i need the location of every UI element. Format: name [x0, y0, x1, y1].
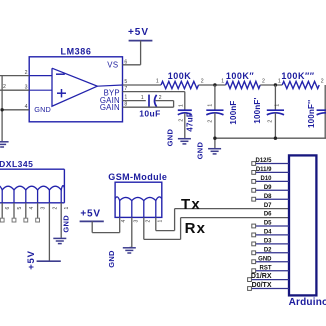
Arduino pin D5	[252, 221, 289, 228]
op-amp U1 pin name GAIN a	[100, 96, 120, 105]
wire Tx GSM pin1 to Arduino D7	[156, 209, 289, 231]
capacitor C4 label 100nF'	[253, 97, 262, 123]
capacitor C2 pin number 1	[178, 104, 184, 107]
power +5V bar GSM	[80, 220, 104, 222]
svg-text:1: 1	[278, 78, 281, 84]
svg-text:Arduino: Arduino	[289, 297, 326, 308]
svg-text:D5: D5	[264, 221, 272, 227]
capacitor C4 pin number 2	[268, 120, 274, 123]
svg-text:3: 3	[25, 84, 28, 90]
accelerometer ADXL345 label	[0, 159, 33, 169]
power +5V bar top	[129, 40, 153, 42]
power +5V label GSM	[80, 208, 100, 219]
svg-text:47uF: 47uF	[186, 112, 195, 132]
svg-text:GND: GND	[34, 105, 51, 114]
svg-text:100nF: 100nF	[229, 100, 238, 124]
svg-text:D9: D9	[264, 185, 272, 191]
capacitor C2 label 47uF	[186, 112, 195, 132]
wire +5V to GSM pin4	[92, 217, 120, 232]
svg-text:3: 3	[133, 220, 139, 223]
resistor R2 pin number 2	[262, 78, 265, 84]
svg-text:2: 2	[208, 120, 214, 123]
wire junction A down to C3	[214, 85, 216, 110]
wire Rx GSM pin2 to Arduino D6	[144, 217, 289, 239]
power +5V label ADXL	[26, 250, 37, 270]
wire ADXL pin1 to ground	[60, 203, 62, 238]
wire ground vertical left	[1, 76, 3, 142]
svg-text:2: 2	[178, 119, 184, 122]
svg-text:4: 4	[25, 104, 28, 110]
resistor R1 100K	[161, 81, 199, 88]
node junction pin4/ground	[0, 108, 3, 111]
svg-text:4: 4	[29, 207, 35, 210]
wire GSM pin3 to ground	[130, 217, 132, 247]
capacitor C3 label 100nF	[229, 100, 238, 124]
svg-text:2: 2	[321, 78, 324, 84]
ground label GND for C3	[196, 142, 205, 160]
svg-text:1: 1	[124, 94, 127, 100]
svg-text:2: 2	[201, 78, 204, 84]
svg-text:2: 2	[3, 84, 6, 90]
svg-text:RST: RST	[260, 265, 272, 271]
capacitor C3 pin number 1	[208, 104, 214, 107]
op-amp U1 pin number 4	[25, 104, 28, 110]
svg-text:1: 1	[64, 207, 70, 210]
svg-text:1: 1	[208, 104, 214, 107]
microcontroller Arduino box	[289, 155, 316, 295]
svg-text:100K: 100K	[168, 71, 192, 81]
capacitor C1 10uF	[149, 95, 157, 107]
Arduino pin D11/9	[252, 167, 289, 174]
resistor R3 pin number 1	[278, 78, 281, 84]
svg-text:LM386: LM386	[60, 47, 91, 57]
node junction B	[274, 83, 277, 86]
resistor R2 100K''	[226, 81, 261, 88]
Arduino pin D10	[252, 176, 289, 183]
svg-text:2: 2	[262, 78, 265, 84]
accelerometer ADXL345 connector box	[0, 169, 64, 203]
svg-text:D0/TX: D0/TX	[252, 282, 272, 289]
svg-text:GSM-Module: GSM-Module	[108, 172, 167, 182]
GSM pin numbers	[121, 220, 163, 223]
svg-text:GND: GND	[196, 142, 205, 160]
wire C1 to GAIN8 loop	[123, 101, 174, 108]
op-amp U1 pin number 1	[124, 94, 127, 100]
ground label GND for C2	[166, 129, 175, 147]
svg-text:GAIN: GAIN	[100, 103, 120, 112]
Arduino pin D1/RX	[248, 273, 289, 281]
terminal square ADXL p6	[0, 218, 4, 222]
svg-text:100K″: 100K″	[226, 71, 255, 81]
svg-text:1: 1	[157, 220, 163, 223]
svg-text:GND: GND	[62, 215, 71, 233]
net label Tx	[181, 196, 201, 213]
ground GND for C3 bus	[208, 149, 221, 154]
svg-text:ADXL345: ADXL345	[0, 159, 33, 169]
op-amp U1 pin name GND	[34, 105, 51, 114]
svg-text:10uF: 10uF	[139, 109, 160, 119]
wire C2 to ground	[184, 113, 186, 138]
svg-text:2: 2	[25, 70, 28, 76]
Arduino pin D8	[252, 194, 289, 201]
capacitor C1 pin number 1	[141, 95, 144, 101]
svg-text:100K″″: 100K″″	[281, 71, 314, 81]
ground label GND GSM	[107, 250, 116, 268]
capacitor C4 pin number 1	[274, 104, 280, 107]
svg-text:D12/5: D12/5	[255, 158, 272, 164]
op-amp U1 pin number 3	[25, 84, 28, 90]
node junction A	[213, 83, 216, 86]
svg-text:D1/RX: D1/RX	[251, 273, 272, 280]
svg-text:D4: D4	[264, 230, 272, 236]
wire ADXL pin3->terminal	[37, 203, 39, 218]
resistor R1 label 100K	[168, 71, 192, 81]
capacitor C1 pin number 2	[159, 95, 162, 101]
node junction bus left	[213, 137, 216, 140]
svg-text:5: 5	[17, 207, 23, 210]
op-amp U1 pin name VS	[107, 61, 118, 70]
wire BYP pin7 to C2	[123, 92, 185, 111]
op-amp U1 pin number 8	[124, 102, 127, 108]
svg-text:5: 5	[124, 79, 127, 85]
wire input to pin2	[0, 75, 29, 77]
svg-text:1: 1	[221, 78, 224, 84]
ground label GND ADXL	[62, 215, 71, 233]
resistor R3 100K''''	[282, 81, 319, 88]
power +5V bar ADXL	[37, 260, 61, 262]
svg-text:1: 1	[141, 95, 144, 101]
svg-text:GND: GND	[107, 250, 116, 268]
op-amp U1 pin number 6	[124, 60, 127, 66]
wire pin5 output to R1	[123, 84, 162, 86]
wire ADXL pin6->terminal	[1, 203, 3, 218]
wire C3 to ground	[214, 113, 216, 149]
svg-text:6: 6	[5, 207, 11, 210]
svg-text:2: 2	[52, 207, 58, 210]
capacitor C5 100nF'' (clipped)	[317, 110, 326, 115]
svg-text:D11/9: D11/9	[256, 167, 272, 173]
wire input to pin3	[0, 89, 29, 91]
capacitor C3 pin number 2	[208, 120, 214, 123]
terminal square ADXL p3	[36, 218, 40, 222]
svg-text:3: 3	[41, 207, 47, 210]
wire ADXL pin2 to +5V	[48, 203, 50, 261]
svg-text:1: 1	[156, 78, 159, 84]
accelerometer pin numbers	[5, 207, 70, 210]
terminal square ADXL p4	[24, 218, 28, 222]
op-amp U1 pin number 5	[124, 79, 127, 85]
ground GND for C2	[178, 139, 191, 144]
wire ADXL pin4->terminal	[25, 203, 27, 218]
Arduino pin GND	[252, 256, 289, 263]
svg-text:D7: D7	[264, 203, 272, 209]
resistor R2 label	[226, 71, 255, 81]
svg-text:2: 2	[145, 220, 151, 223]
Arduino pin D9	[252, 185, 289, 192]
wire junction B down to C4	[274, 85, 276, 110]
svg-text:100nF'': 100nF''	[307, 100, 316, 128]
op-amp U1 pin number 2	[25, 70, 28, 76]
svg-text:D2: D2	[264, 247, 272, 253]
svg-text:100nF': 100nF'	[253, 97, 262, 123]
microcontroller Arduino label	[289, 297, 326, 308]
svg-text:1: 1	[274, 104, 280, 107]
node junction C4 bus	[274, 137, 277, 140]
wire VS pin6 to +5V	[123, 41, 141, 65]
wire right edge down	[324, 85, 326, 138]
op-amp U1 pin name BYP	[104, 88, 120, 97]
Arduino pin D3	[252, 239, 289, 246]
resistor R3 label	[281, 71, 314, 81]
capacitor C4 100nF'	[267, 110, 284, 115]
GSM module connector box	[115, 182, 162, 217]
resistor R2 pin number 1	[221, 78, 224, 84]
svg-text:1: 1	[178, 104, 184, 107]
Arduino pin label D7	[264, 203, 272, 209]
op-amp U1 pin name GAIN b	[100, 103, 120, 112]
capacitor C2 pin number 2	[178, 119, 184, 122]
svg-text:GND: GND	[258, 256, 272, 262]
wire GAIN1 to C1	[123, 100, 146, 102]
power +5V label top	[128, 27, 149, 38]
svg-text:D6: D6	[264, 212, 272, 218]
resistor R1 pin number 1	[156, 78, 159, 84]
svg-text:Rx: Rx	[185, 220, 207, 237]
terminal square ADXL p5	[12, 218, 16, 222]
op-amp U1 triangle symbol	[52, 68, 123, 106]
capacitor C5 label 100nF''	[307, 100, 316, 128]
svg-text:D10: D10	[260, 176, 272, 182]
node input 2 label	[3, 84, 6, 90]
op-amp U1 pin number 7	[124, 86, 127, 92]
op-amp U1 label LM386	[60, 47, 91, 57]
Arduino pin RST	[252, 265, 289, 272]
svg-text:Tx: Tx	[181, 196, 201, 213]
wire R1 to R2	[199, 84, 226, 86]
ground GND ADXL	[53, 238, 66, 243]
resistor R3 pin number 2	[321, 78, 324, 84]
wire C4 to bus	[274, 113, 276, 139]
svg-text:+5V: +5V	[128, 27, 149, 38]
svg-text:GND: GND	[166, 129, 175, 147]
ground GND GSM	[123, 248, 136, 253]
wire pin4 to ground net	[2, 109, 29, 111]
Arduino pin D2	[252, 247, 289, 254]
resistor R1 pin number 2	[201, 78, 204, 84]
wire ADXL pin5->terminal	[13, 203, 15, 218]
svg-text:VS: VS	[107, 61, 118, 70]
svg-text:4: 4	[121, 220, 127, 223]
Arduino pin D4	[252, 230, 289, 237]
op-amp U1 LM386 body box	[29, 57, 122, 122]
wire R2 to R3	[260, 84, 282, 86]
svg-text:+5V: +5V	[80, 208, 100, 219]
wire ground bus	[215, 137, 326, 139]
Arduino pin D12/5	[252, 158, 289, 165]
Arduino pin D0/TX	[248, 282, 289, 290]
svg-text:D3: D3	[264, 239, 272, 245]
svg-text:D8: D8	[264, 194, 272, 200]
capacitor C2 47uF	[178, 110, 192, 115]
op-amp U1 internal input wires	[29, 76, 52, 91]
GSM module label	[108, 172, 167, 182]
capacitor C1 label 10uF	[139, 109, 160, 119]
capacitor C3 100nF	[206, 110, 223, 115]
net label Rx	[185, 220, 207, 237]
Arduino pin label D6	[264, 212, 272, 218]
svg-text:2: 2	[268, 120, 274, 123]
ground GND left	[0, 142, 9, 147]
svg-text:+5V: +5V	[26, 250, 37, 270]
